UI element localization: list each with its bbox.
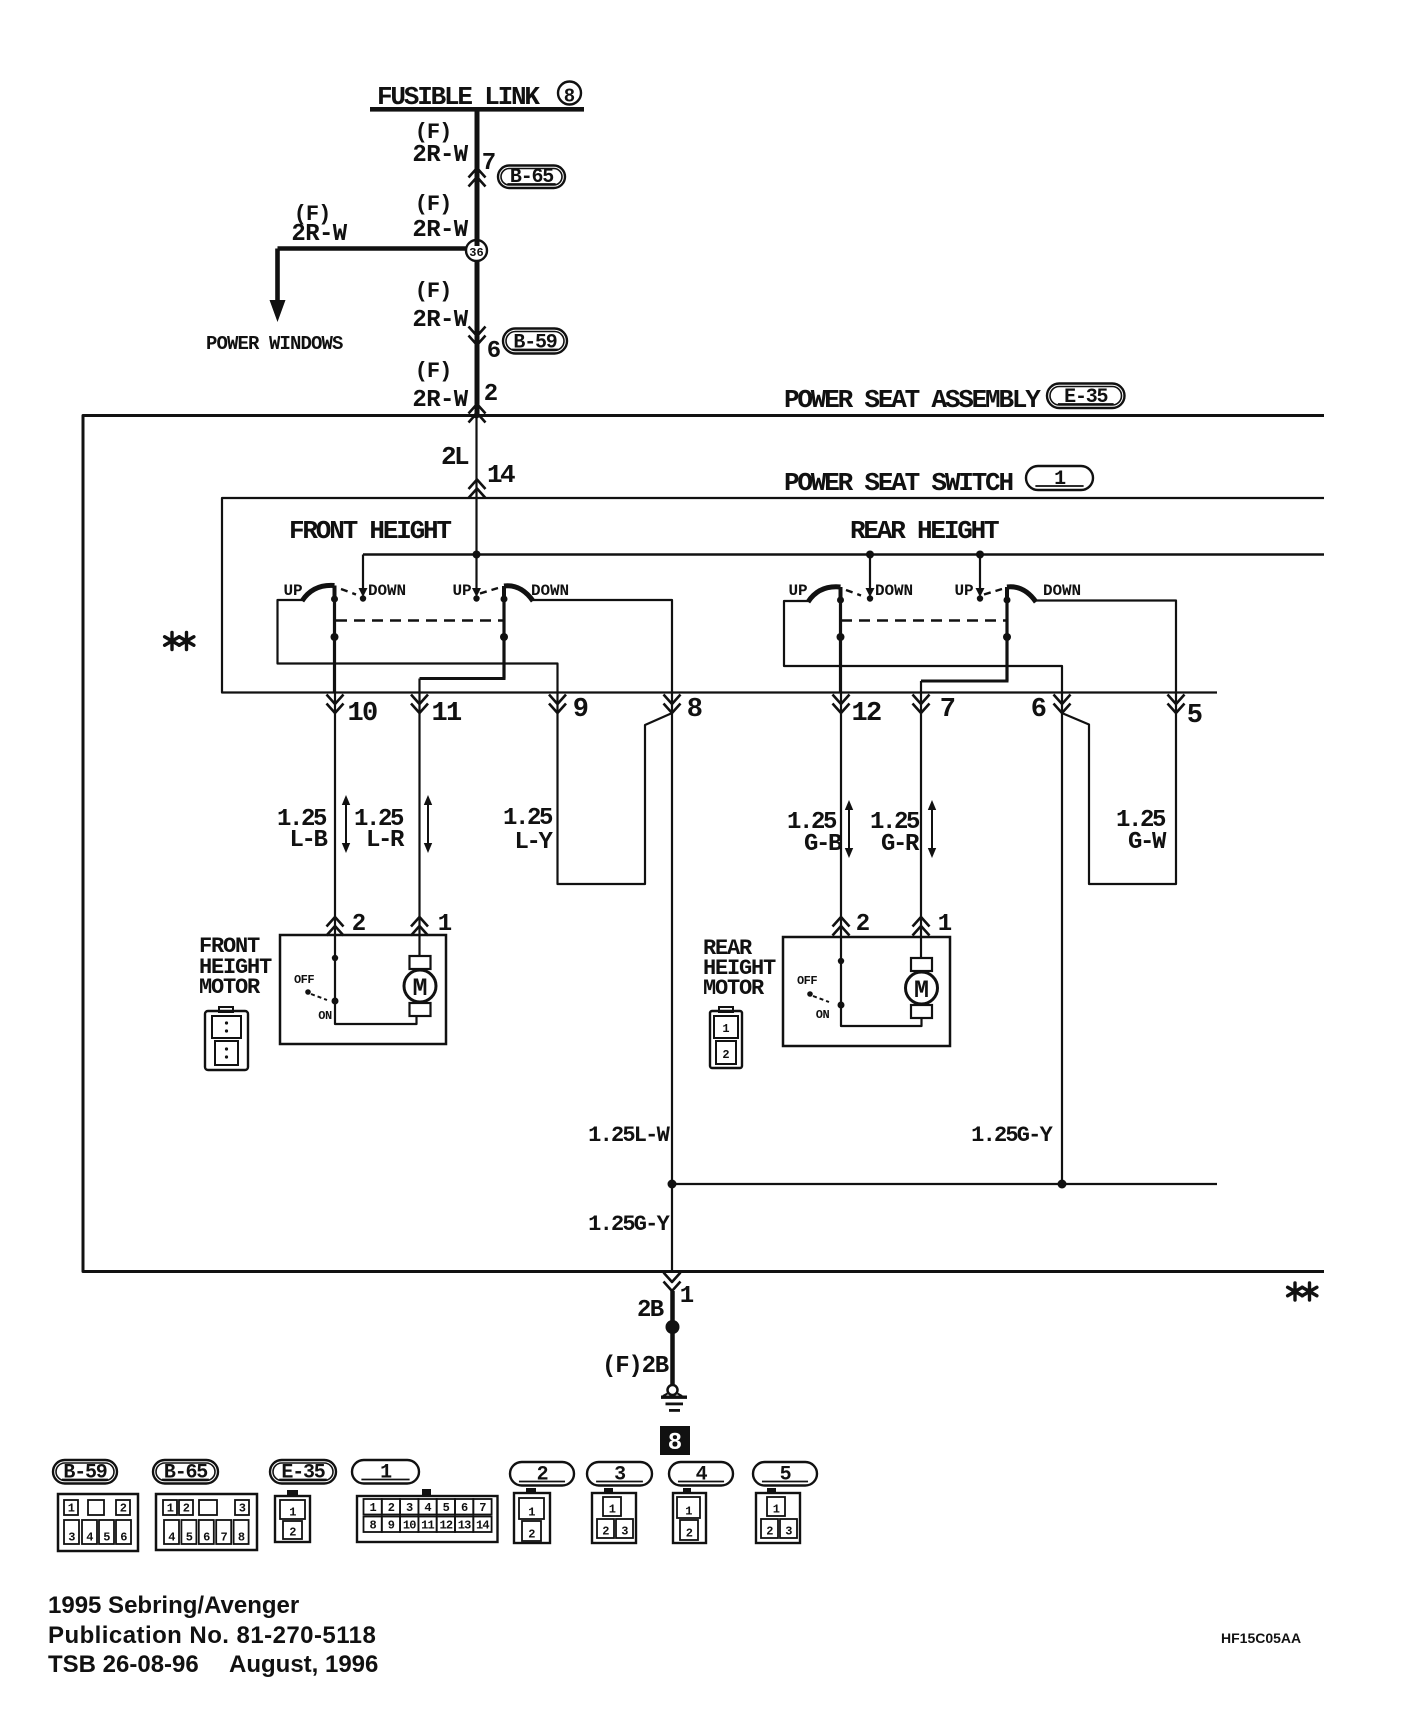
svg-text:G-W: G-W: [1128, 829, 1167, 856]
svg-text:3: 3: [239, 1502, 246, 1516]
svg-text:2: 2: [766, 1525, 773, 1539]
svg-text:UP: UP: [954, 582, 973, 600]
svg-text:1: 1: [68, 1502, 75, 1516]
svg-text:OFF: OFF: [797, 974, 817, 988]
svg-text:10: 10: [347, 699, 377, 729]
svg-text:5: 5: [443, 1501, 450, 1515]
svg-text:E-35: E-35: [281, 1462, 324, 1485]
svg-text:1: 1: [369, 1501, 376, 1515]
svg-text:(F)2B: (F)2B: [602, 1353, 669, 1380]
svg-text:2: 2: [183, 1502, 190, 1516]
svg-text:UP: UP: [283, 582, 302, 600]
svg-text:10: 10: [403, 1519, 416, 1533]
svg-text:L-B: L-B: [289, 827, 327, 854]
svg-text:(F): (F): [415, 359, 452, 384]
svg-text:G-R: G-R: [881, 831, 920, 858]
svg-text:1: 1: [773, 1503, 780, 1517]
svg-text:1: 1: [289, 1506, 296, 1520]
svg-text:1: 1: [1054, 468, 1066, 491]
svg-text:6: 6: [1031, 695, 1046, 725]
svg-text:2: 2: [528, 1528, 535, 1542]
svg-text:2: 2: [602, 1525, 609, 1539]
svg-text:2: 2: [120, 1502, 127, 1516]
svg-text:B-59: B-59: [63, 1462, 106, 1485]
svg-text:6: 6: [487, 338, 501, 365]
svg-text:2L: 2L: [441, 442, 469, 472]
svg-text:2R-W: 2R-W: [412, 387, 468, 414]
svg-text:1.25: 1.25: [503, 805, 553, 832]
svg-text:2B: 2B: [637, 1297, 664, 1324]
svg-text:5: 5: [103, 1531, 110, 1545]
svg-text:8: 8: [564, 86, 575, 108]
svg-text:1: 1: [685, 1505, 692, 1519]
svg-text:1: 1: [938, 911, 952, 938]
svg-text:1: 1: [528, 1506, 535, 1520]
svg-text:MOTOR: MOTOR: [703, 976, 765, 1001]
svg-text:1.25G-Y: 1.25G-Y: [588, 1212, 670, 1237]
svg-text:UP: UP: [788, 582, 807, 600]
svg-text:FRONT HEIGHT: FRONT HEIGHT: [289, 516, 451, 546]
svg-text:4: 4: [168, 1531, 175, 1545]
svg-text:1: 1: [380, 1462, 392, 1485]
svg-text:8: 8: [687, 695, 702, 725]
svg-text:B-65: B-65: [510, 166, 553, 189]
svg-text:3: 3: [621, 1525, 628, 1539]
svg-text:1.25G-Y: 1.25G-Y: [971, 1123, 1053, 1148]
svg-text:2: 2: [484, 381, 498, 408]
svg-text:2: 2: [388, 1501, 395, 1515]
svg-text:M: M: [412, 974, 427, 1003]
svg-text:8: 8: [238, 1531, 245, 1545]
svg-text:1995 Sebring/Avenger: 1995 Sebring/Avenger: [48, 1592, 299, 1619]
svg-text:1: 1: [680, 1283, 694, 1310]
svg-text:12: 12: [439, 1519, 452, 1533]
svg-text:5: 5: [1187, 701, 1202, 731]
svg-text:L-Y: L-Y: [514, 829, 553, 856]
svg-text:1: 1: [167, 1502, 174, 1516]
svg-text:OFF: OFF: [294, 973, 314, 987]
svg-text:7: 7: [940, 695, 955, 725]
svg-text:12: 12: [851, 699, 881, 729]
svg-text:DOWN: DOWN: [1043, 582, 1081, 600]
svg-text:6: 6: [120, 1531, 127, 1545]
svg-text:DOWN: DOWN: [368, 582, 406, 600]
svg-text:HF15C05AA: HF15C05AA: [1221, 1630, 1301, 1646]
svg-text:G-B: G-B: [804, 831, 842, 858]
svg-text:36: 36: [469, 246, 483, 260]
svg-text:3: 3: [406, 1501, 413, 1515]
svg-text:ON: ON: [816, 1008, 830, 1022]
svg-text:4: 4: [424, 1501, 431, 1515]
svg-text:2: 2: [856, 911, 870, 938]
svg-text:2: 2: [289, 1526, 296, 1540]
svg-text:2: 2: [722, 1048, 729, 1062]
svg-text:2R-W: 2R-W: [412, 142, 468, 169]
svg-text:11: 11: [421, 1519, 434, 1533]
svg-text:M: M: [914, 976, 929, 1005]
svg-text:TSB 26-08-96: TSB 26-08-96: [48, 1651, 199, 1678]
svg-text:MOTOR: MOTOR: [199, 975, 261, 1000]
svg-text:3: 3: [614, 1464, 625, 1487]
svg-text:POWER SEAT ASSEMBLY: POWER SEAT ASSEMBLY: [784, 385, 1041, 415]
svg-text:4: 4: [86, 1531, 93, 1545]
svg-text:Publication No. 81-270-5118: Publication No. 81-270-5118: [48, 1622, 376, 1649]
svg-text:2: 2: [686, 1527, 693, 1541]
svg-text:3: 3: [68, 1531, 75, 1545]
svg-text:3: 3: [785, 1525, 792, 1539]
svg-text:2R-W: 2R-W: [291, 221, 347, 248]
svg-text:7: 7: [482, 150, 496, 177]
svg-text:5: 5: [780, 1464, 791, 1487]
svg-text:August, 1996: August, 1996: [229, 1651, 378, 1678]
svg-text:B-65: B-65: [164, 1462, 207, 1485]
svg-text:2: 2: [537, 1464, 548, 1487]
svg-text:E-35: E-35: [1064, 386, 1107, 409]
svg-text:6: 6: [461, 1501, 468, 1515]
svg-text:14: 14: [487, 460, 515, 490]
svg-text:9: 9: [388, 1519, 395, 1533]
svg-text:(F): (F): [415, 192, 452, 217]
svg-text:DOWN: DOWN: [875, 582, 913, 600]
svg-text:8: 8: [369, 1519, 376, 1533]
svg-text:7: 7: [479, 1501, 486, 1515]
svg-text:L-R: L-R: [366, 827, 405, 854]
svg-text:2R-W: 2R-W: [412, 307, 468, 334]
svg-text:DOWN: DOWN: [531, 582, 569, 600]
svg-text:POWER SEAT SWITCH: POWER SEAT SWITCH: [784, 468, 1012, 498]
svg-text:B-59: B-59: [513, 332, 556, 355]
svg-text:ON: ON: [318, 1009, 332, 1023]
svg-text:6: 6: [203, 1531, 210, 1545]
svg-text:1: 1: [722, 1022, 729, 1036]
svg-text:13: 13: [458, 1519, 471, 1533]
svg-text:UP: UP: [452, 582, 471, 600]
svg-text:14: 14: [476, 1519, 489, 1533]
svg-text:7: 7: [220, 1531, 227, 1545]
svg-text:REAR HEIGHT: REAR HEIGHT: [850, 516, 999, 546]
svg-text:(F): (F): [415, 279, 452, 304]
svg-text:11: 11: [431, 699, 462, 729]
svg-text:9: 9: [573, 695, 588, 725]
svg-text:5: 5: [186, 1531, 193, 1545]
svg-text:8: 8: [668, 1430, 682, 1457]
svg-text:1.25L-W: 1.25L-W: [588, 1123, 670, 1148]
svg-text:4: 4: [696, 1464, 708, 1487]
svg-text:POWER WINDOWS: POWER WINDOWS: [206, 333, 343, 355]
svg-text:1: 1: [609, 1503, 616, 1517]
svg-text:2R-W: 2R-W: [412, 217, 468, 244]
